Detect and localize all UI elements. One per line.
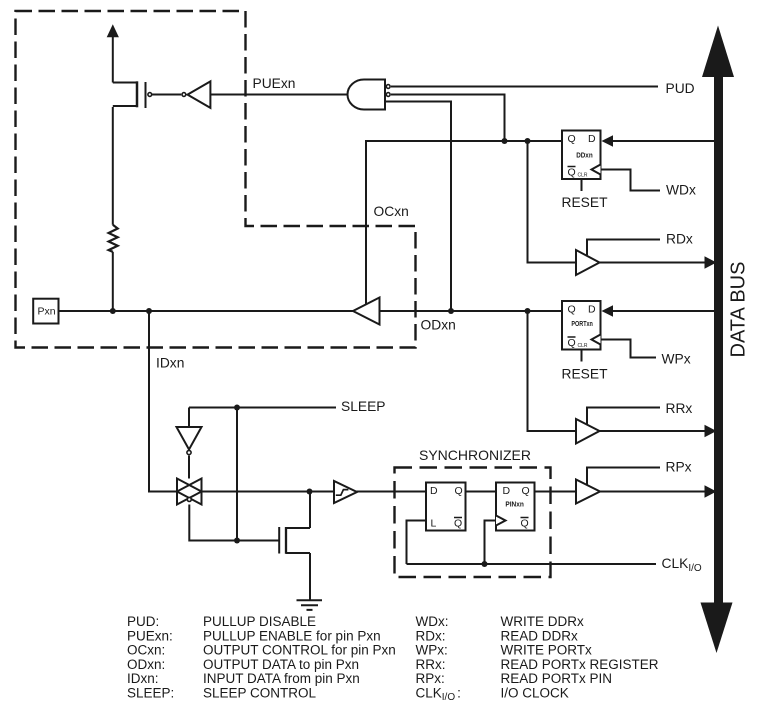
- wire Pxn to tri-state output: [59, 310, 354, 312]
- wire PINxn Q to RPx buffer: [535, 491, 577, 493]
- bubble AND input 1: [386, 85, 390, 89]
- svg-text:WDx:: WDx:: [416, 614, 449, 629]
- dashed synchronizer box: [395, 468, 551, 578]
- svg-text:D: D: [430, 485, 438, 497]
- wire NMOS source to ground: [309, 553, 311, 600]
- wire schmitt to synchronizer: [357, 491, 427, 493]
- svg-text:OCxn:: OCxn:: [127, 643, 165, 658]
- buffer RDx: [576, 250, 600, 275]
- svg-text:Q: Q: [521, 518, 529, 530]
- node junction on OCxn line: [502, 138, 508, 144]
- node junction IDxn tap: [146, 308, 152, 314]
- svg-text:SLEEP: SLEEP: [341, 399, 385, 414]
- wire SLEEP to inverter input: [188, 408, 190, 428]
- bus arrow bottom: [701, 603, 733, 654]
- svg-text:Q: Q: [568, 167, 576, 179]
- wire TG output to schmitt trigger: [202, 491, 335, 493]
- svg-text:RDx:: RDx:: [416, 628, 446, 643]
- svg-text:PUExn:: PUExn:: [127, 628, 173, 643]
- wire RPx output to bus: [600, 491, 705, 493]
- svg-text:READ PORTx PIN: READ PORTx PIN: [501, 671, 613, 686]
- wire resistor to Pxn node: [112, 252, 114, 311]
- wire DDxn Q to RDx buffer: [528, 141, 577, 263]
- svg-text:L: L: [431, 518, 437, 530]
- node junction NMOS gate line: [234, 538, 240, 544]
- wire inverter to PMOS gate: [152, 94, 182, 96]
- wire latch2 clock: [485, 521, 497, 565]
- D input arrow PORTxn: [602, 305, 614, 316]
- wire RDx enable: [587, 240, 660, 256]
- svg-text:CLR: CLR: [578, 343, 588, 349]
- svg-text:WPx:: WPx:: [416, 643, 448, 658]
- node junction NMOS drain tap: [307, 489, 313, 495]
- wire IDxn: Pxn node to transmission gate: [149, 311, 177, 492]
- svg-text:Q: Q: [568, 337, 576, 349]
- svg-text:OCxn: OCxn: [374, 204, 409, 219]
- DATA BUS thick line: [714, 73, 723, 606]
- node junction DDxn Q / RDx tap: [525, 138, 531, 144]
- wire PORTxn clock to WPx: [601, 340, 657, 358]
- latch 1: [426, 483, 466, 531]
- node junction ODxn / RRx tap: [525, 308, 531, 314]
- svg-text:SYNCHRONIZER: SYNCHRONIZER: [419, 447, 531, 463]
- svg-text:D: D: [588, 133, 596, 145]
- inverter U1 (pull-up enable): [188, 81, 211, 108]
- svg-text:WDx: WDx: [666, 183, 696, 198]
- AND gate (mirrored, output left): [348, 80, 386, 110]
- wire AND input3 to ODxn line: [385, 102, 451, 312]
- wire OCxn: DDxn Q to tri-state enable: [366, 141, 562, 304]
- flip-flop DDxn: [562, 131, 601, 180]
- node junction CLK line: [482, 561, 488, 567]
- svg-text:WRITE PORTx: WRITE PORTx: [501, 643, 593, 658]
- wire VCC to PMOS source: [112, 37, 114, 83]
- dashed pull-up region box: [16, 11, 416, 348]
- wire SLEEP vertical to NMOS gate line: [236, 408, 238, 541]
- svg-text:DATA BUS: DATA BUS: [728, 262, 750, 358]
- ground: [297, 600, 323, 610]
- svg-text:D: D: [503, 485, 511, 497]
- svg-text:READ DDRx: READ DDRx: [501, 628, 579, 643]
- node junction SLEEP: [234, 405, 240, 411]
- svg-text:Pxn: Pxn: [38, 306, 56, 318]
- wire RDx output to bus: [600, 262, 706, 264]
- VCC arrow: [107, 24, 119, 37]
- resistor pull-up: [109, 225, 118, 252]
- inverter U2 (sleep, pointing down): [177, 427, 202, 450]
- node junction pull-up to Pxn line: [110, 308, 116, 314]
- bubble AND input 2: [386, 93, 390, 97]
- svg-text:PUD:: PUD:: [127, 614, 159, 629]
- svg-text:CLKI/O: CLKI/O: [662, 556, 702, 574]
- wire DDxn clock to WDx: [601, 170, 661, 191]
- Pxn pad box: [33, 299, 58, 324]
- schmitt trigger buffer: [334, 481, 357, 503]
- wire RPx enable: [587, 468, 660, 486]
- wire inverter out to transmission gate: [188, 456, 190, 479]
- transistor NMOS (sleep clamp): [279, 527, 310, 554]
- svg-text:Q: Q: [522, 485, 530, 497]
- wire latch1 Q to PINxn D: [466, 491, 497, 493]
- svg-text:PUD: PUD: [666, 81, 695, 96]
- legend: [127, 614, 659, 703]
- svg-text:PORTxn: PORTxn: [571, 319, 593, 328]
- wire SLEEP: [189, 407, 336, 409]
- svg-text:D: D: [588, 304, 596, 316]
- svg-text:OUTPUT DATA to pin Pxn: OUTPUT DATA to pin Pxn: [203, 657, 359, 672]
- svg-text:IDxn: IDxn: [156, 356, 184, 371]
- buffer RRx: [576, 419, 600, 444]
- wire PUExn: AND output to inverter: [210, 94, 348, 96]
- svg-text:OUTPUT CONTROL for pin Pxn: OUTPUT CONTROL for pin Pxn: [203, 643, 396, 658]
- svg-text:RPx: RPx: [666, 460, 692, 475]
- svg-text:CLR: CLR: [578, 173, 588, 179]
- svg-text:PULLUP ENABLE for pin Pxn: PULLUP ENABLE for pin Pxn: [203, 628, 381, 643]
- svg-text:PINxn: PINxn: [505, 499, 524, 508]
- wire RRx output to bus: [600, 430, 706, 432]
- tri-state buffer ODxn: [353, 298, 380, 325]
- svg-text:PULLUP DISABLE: PULLUP DISABLE: [203, 614, 316, 629]
- svg-text:RESET: RESET: [562, 195, 609, 210]
- wire PORTxn Q to RRx buffer: [528, 311, 577, 431]
- svg-text:READ PORTx REGISTER: READ PORTx REGISTER: [501, 657, 659, 672]
- svg-text:ODxn: ODxn: [421, 317, 456, 332]
- svg-text:Q: Q: [568, 133, 576, 145]
- svg-text:Q: Q: [455, 485, 463, 497]
- svg-text:RESET: RESET: [562, 366, 609, 381]
- svg-text:WRITE DDRx: WRITE DDRx: [501, 614, 584, 629]
- wire PORTxn reset: [581, 350, 583, 362]
- flip-flop and latch inner labels: [38, 133, 597, 530]
- svg-text:Q: Q: [454, 518, 462, 530]
- svg-text:RDx: RDx: [666, 232, 693, 247]
- svg-text:INPUT DATA from pin Pxn: INPUT DATA from pin Pxn: [203, 671, 360, 686]
- svg-text:CLKI/O:: CLKI/O:: [416, 686, 461, 704]
- transmission gate: [177, 479, 202, 505]
- bus arrow top: [702, 26, 734, 78]
- svg-text:RRx:: RRx:: [416, 657, 446, 672]
- svg-text:SLEEP CONTROL: SLEEP CONTROL: [203, 686, 317, 701]
- wire DDxn reset: [581, 179, 583, 191]
- svg-text:I/O CLOCK: I/O CLOCK: [501, 686, 569, 701]
- svg-text:ODxn:: ODxn:: [127, 657, 165, 672]
- wire NMOS drain up to IDxn line: [309, 492, 311, 529]
- wire ODxn: PORTxn Q to tri-state input: [380, 310, 563, 312]
- wire AND input2 to DDxn Q line: [391, 95, 505, 142]
- svg-text:WPx: WPx: [662, 352, 691, 367]
- svg-text:Q: Q: [568, 304, 576, 316]
- svg-text:IDxn:: IDxn:: [127, 671, 159, 686]
- latch 2 PINxn: [496, 483, 535, 531]
- svg-text:RRx: RRx: [666, 401, 693, 416]
- wire CLK I/O: [407, 563, 657, 565]
- transistor pull-up PMOS: [113, 82, 146, 108]
- wire PUD: AND input1 to PUD label: [391, 86, 658, 88]
- flip-flop PORTxn: [562, 301, 601, 350]
- wire PMOS drain to resistor: [112, 107, 114, 225]
- svg-text:SLEEP:: SLEEP:: [127, 686, 174, 701]
- wire latch1 L enable: [407, 521, 427, 565]
- svg-text:PUExn: PUExn: [253, 76, 296, 91]
- svg-text:RPx:: RPx:: [416, 671, 445, 686]
- svg-text:DDxn: DDxn: [576, 151, 593, 160]
- node junction ODxn / AND input tap: [448, 308, 454, 314]
- D input arrow DDxn: [602, 135, 614, 146]
- wire TG lower control to NMOS gate: [189, 505, 278, 541]
- buffer RPx: [576, 480, 600, 504]
- wire RRx enable: [587, 408, 660, 425]
